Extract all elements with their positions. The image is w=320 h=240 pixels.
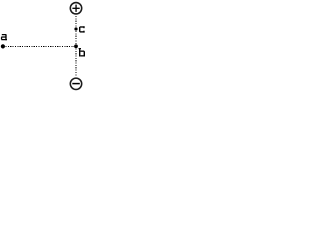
terminal: negative source terminal circle	[70, 78, 81, 89]
wire: vertical dotted wire from node b to - terminal	[75, 48, 77, 76]
label b	[79, 48, 85, 57]
node c	[74, 27, 77, 30]
node a	[1, 44, 5, 48]
node b	[74, 44, 78, 48]
terminal: positive source terminal circle	[70, 3, 81, 14]
wire: vertical dotted wire from node c to node b	[75, 31, 77, 44]
plus sign inside positive terminal	[72, 7, 79, 9]
wire: vertical dotted wire from + terminal to node c	[75, 16, 77, 27]
minus sign inside negative terminal	[72, 83, 80, 85]
wire: horizontal dotted wire from node a to node b	[6, 45, 75, 47]
label a	[1, 34, 7, 40]
label c	[79, 26, 85, 32]
